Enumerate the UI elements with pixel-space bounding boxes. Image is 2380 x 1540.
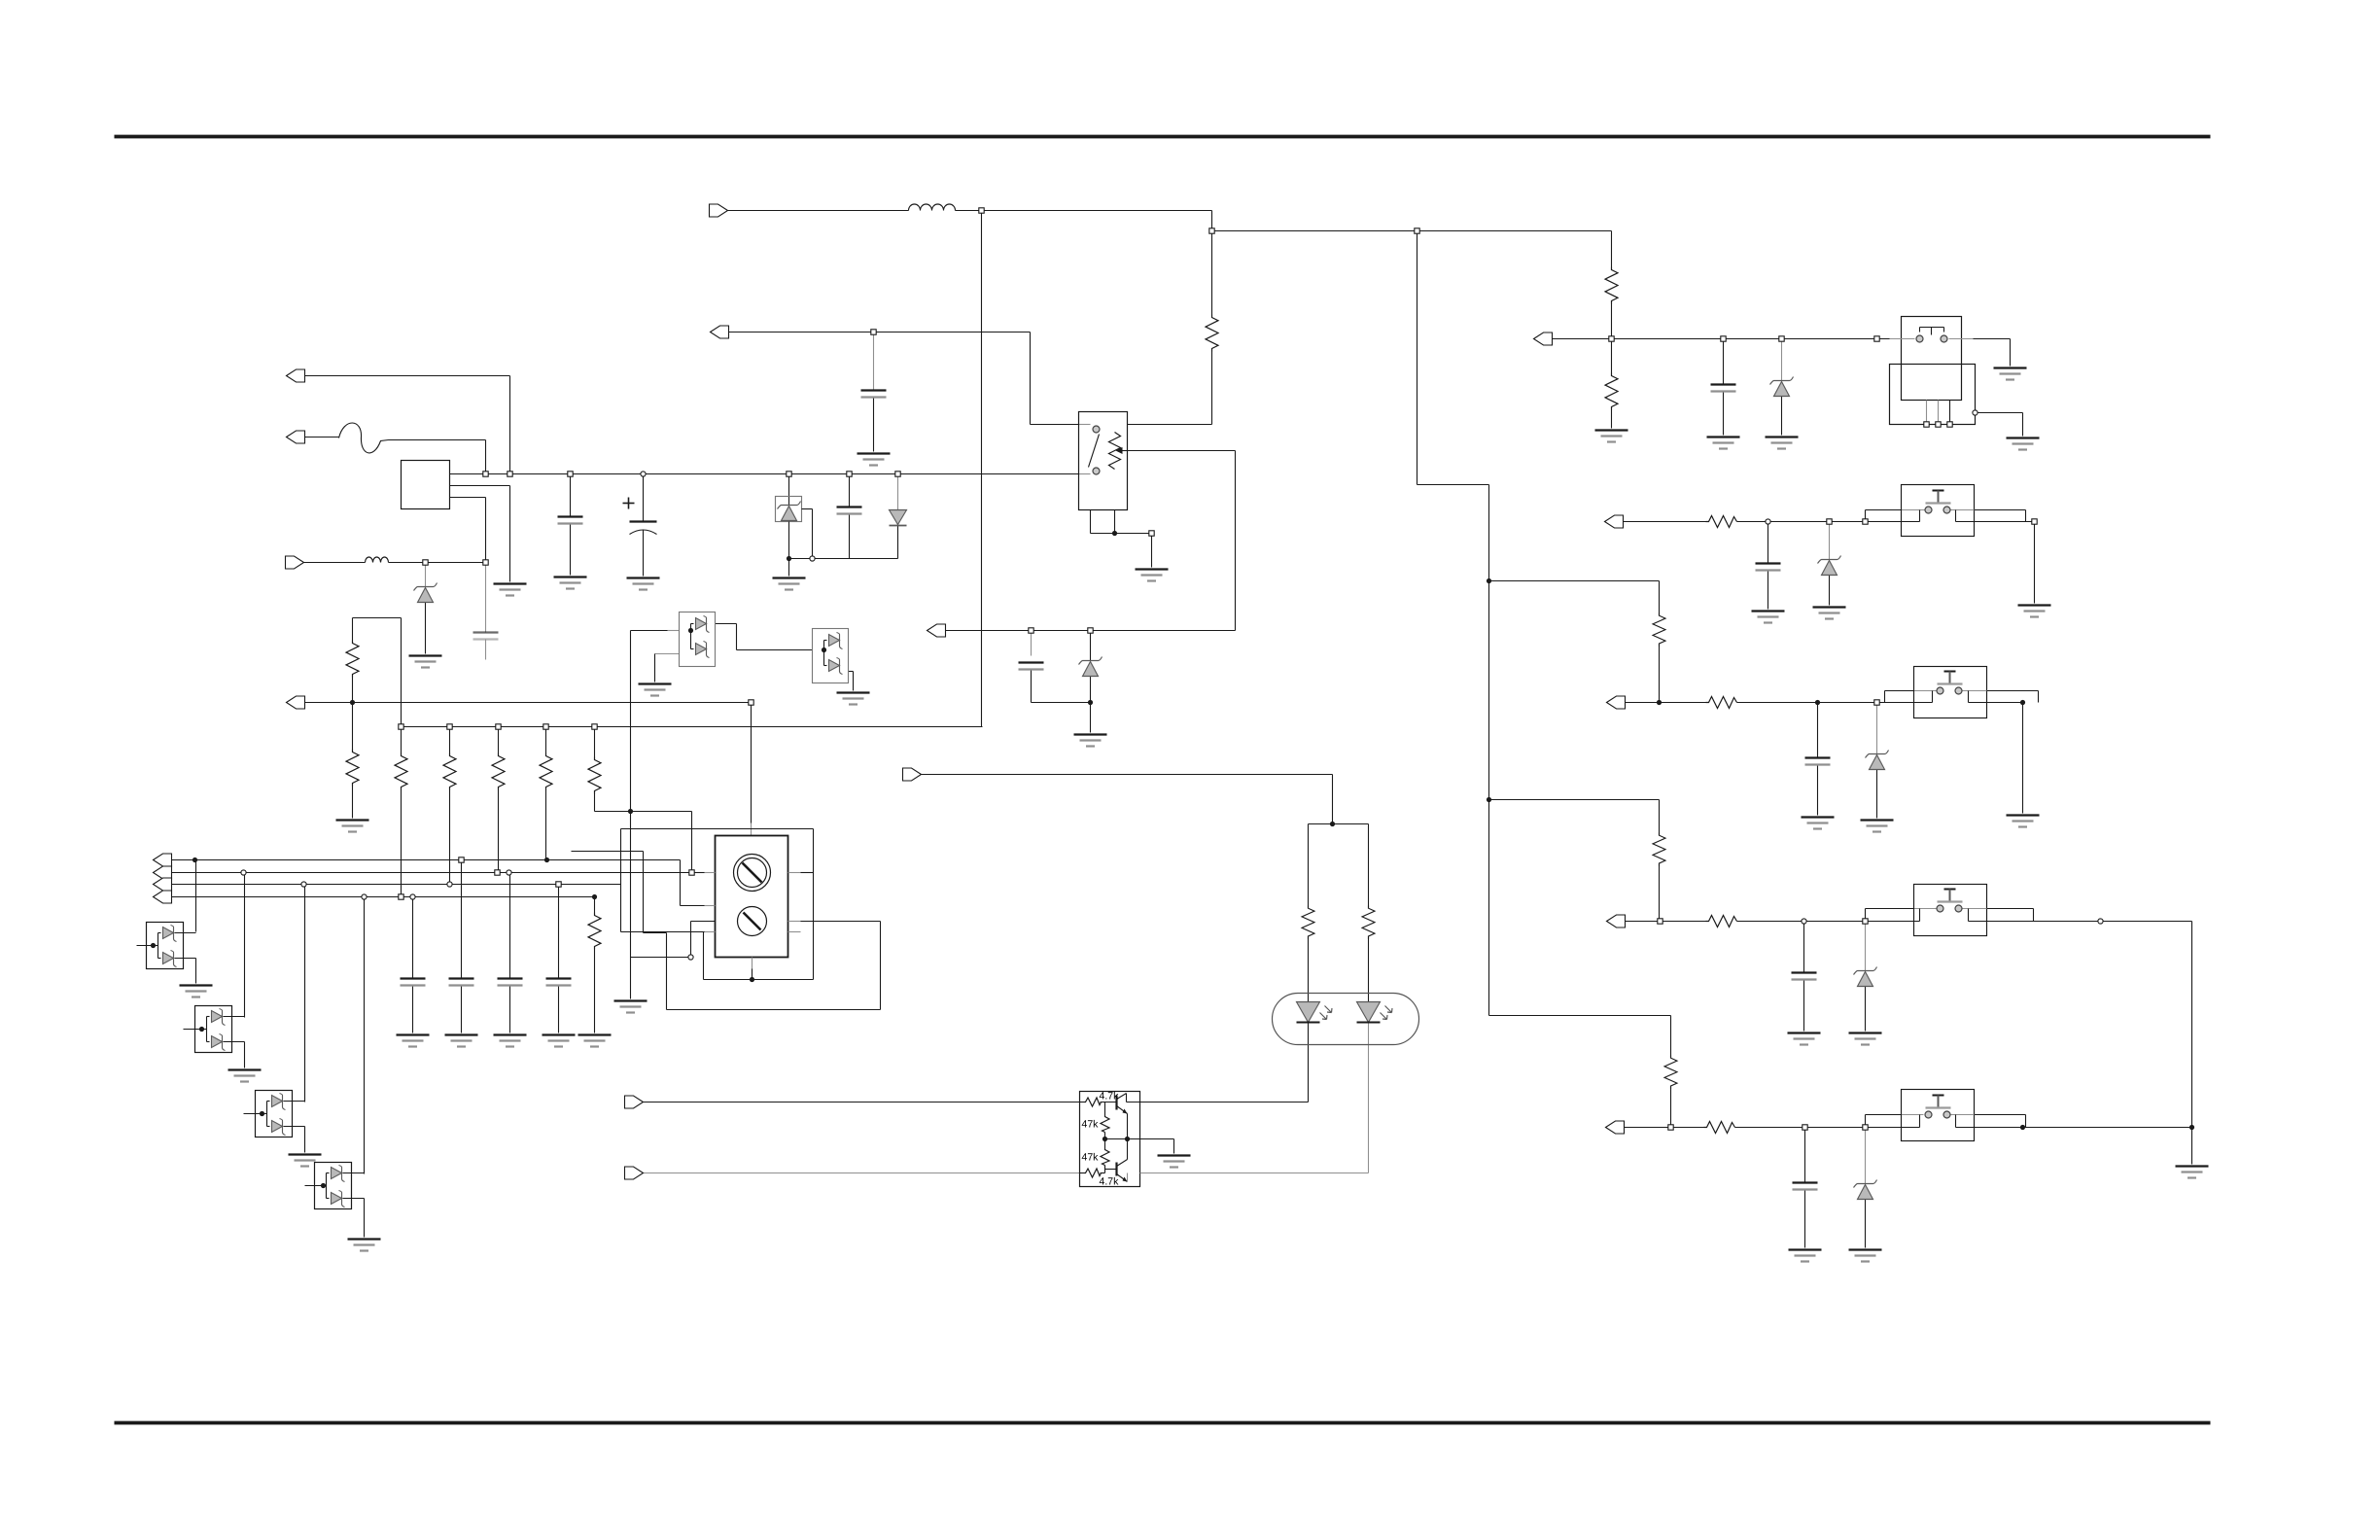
- svg-text:47k: 47k: [1082, 1152, 1100, 1164]
- svg-text:4.7k: 4.7k: [1100, 1091, 1120, 1102]
- svg-text:4.7k: 4.7k: [1100, 1176, 1120, 1188]
- svg-text:47k: 47k: [1082, 1119, 1100, 1131]
